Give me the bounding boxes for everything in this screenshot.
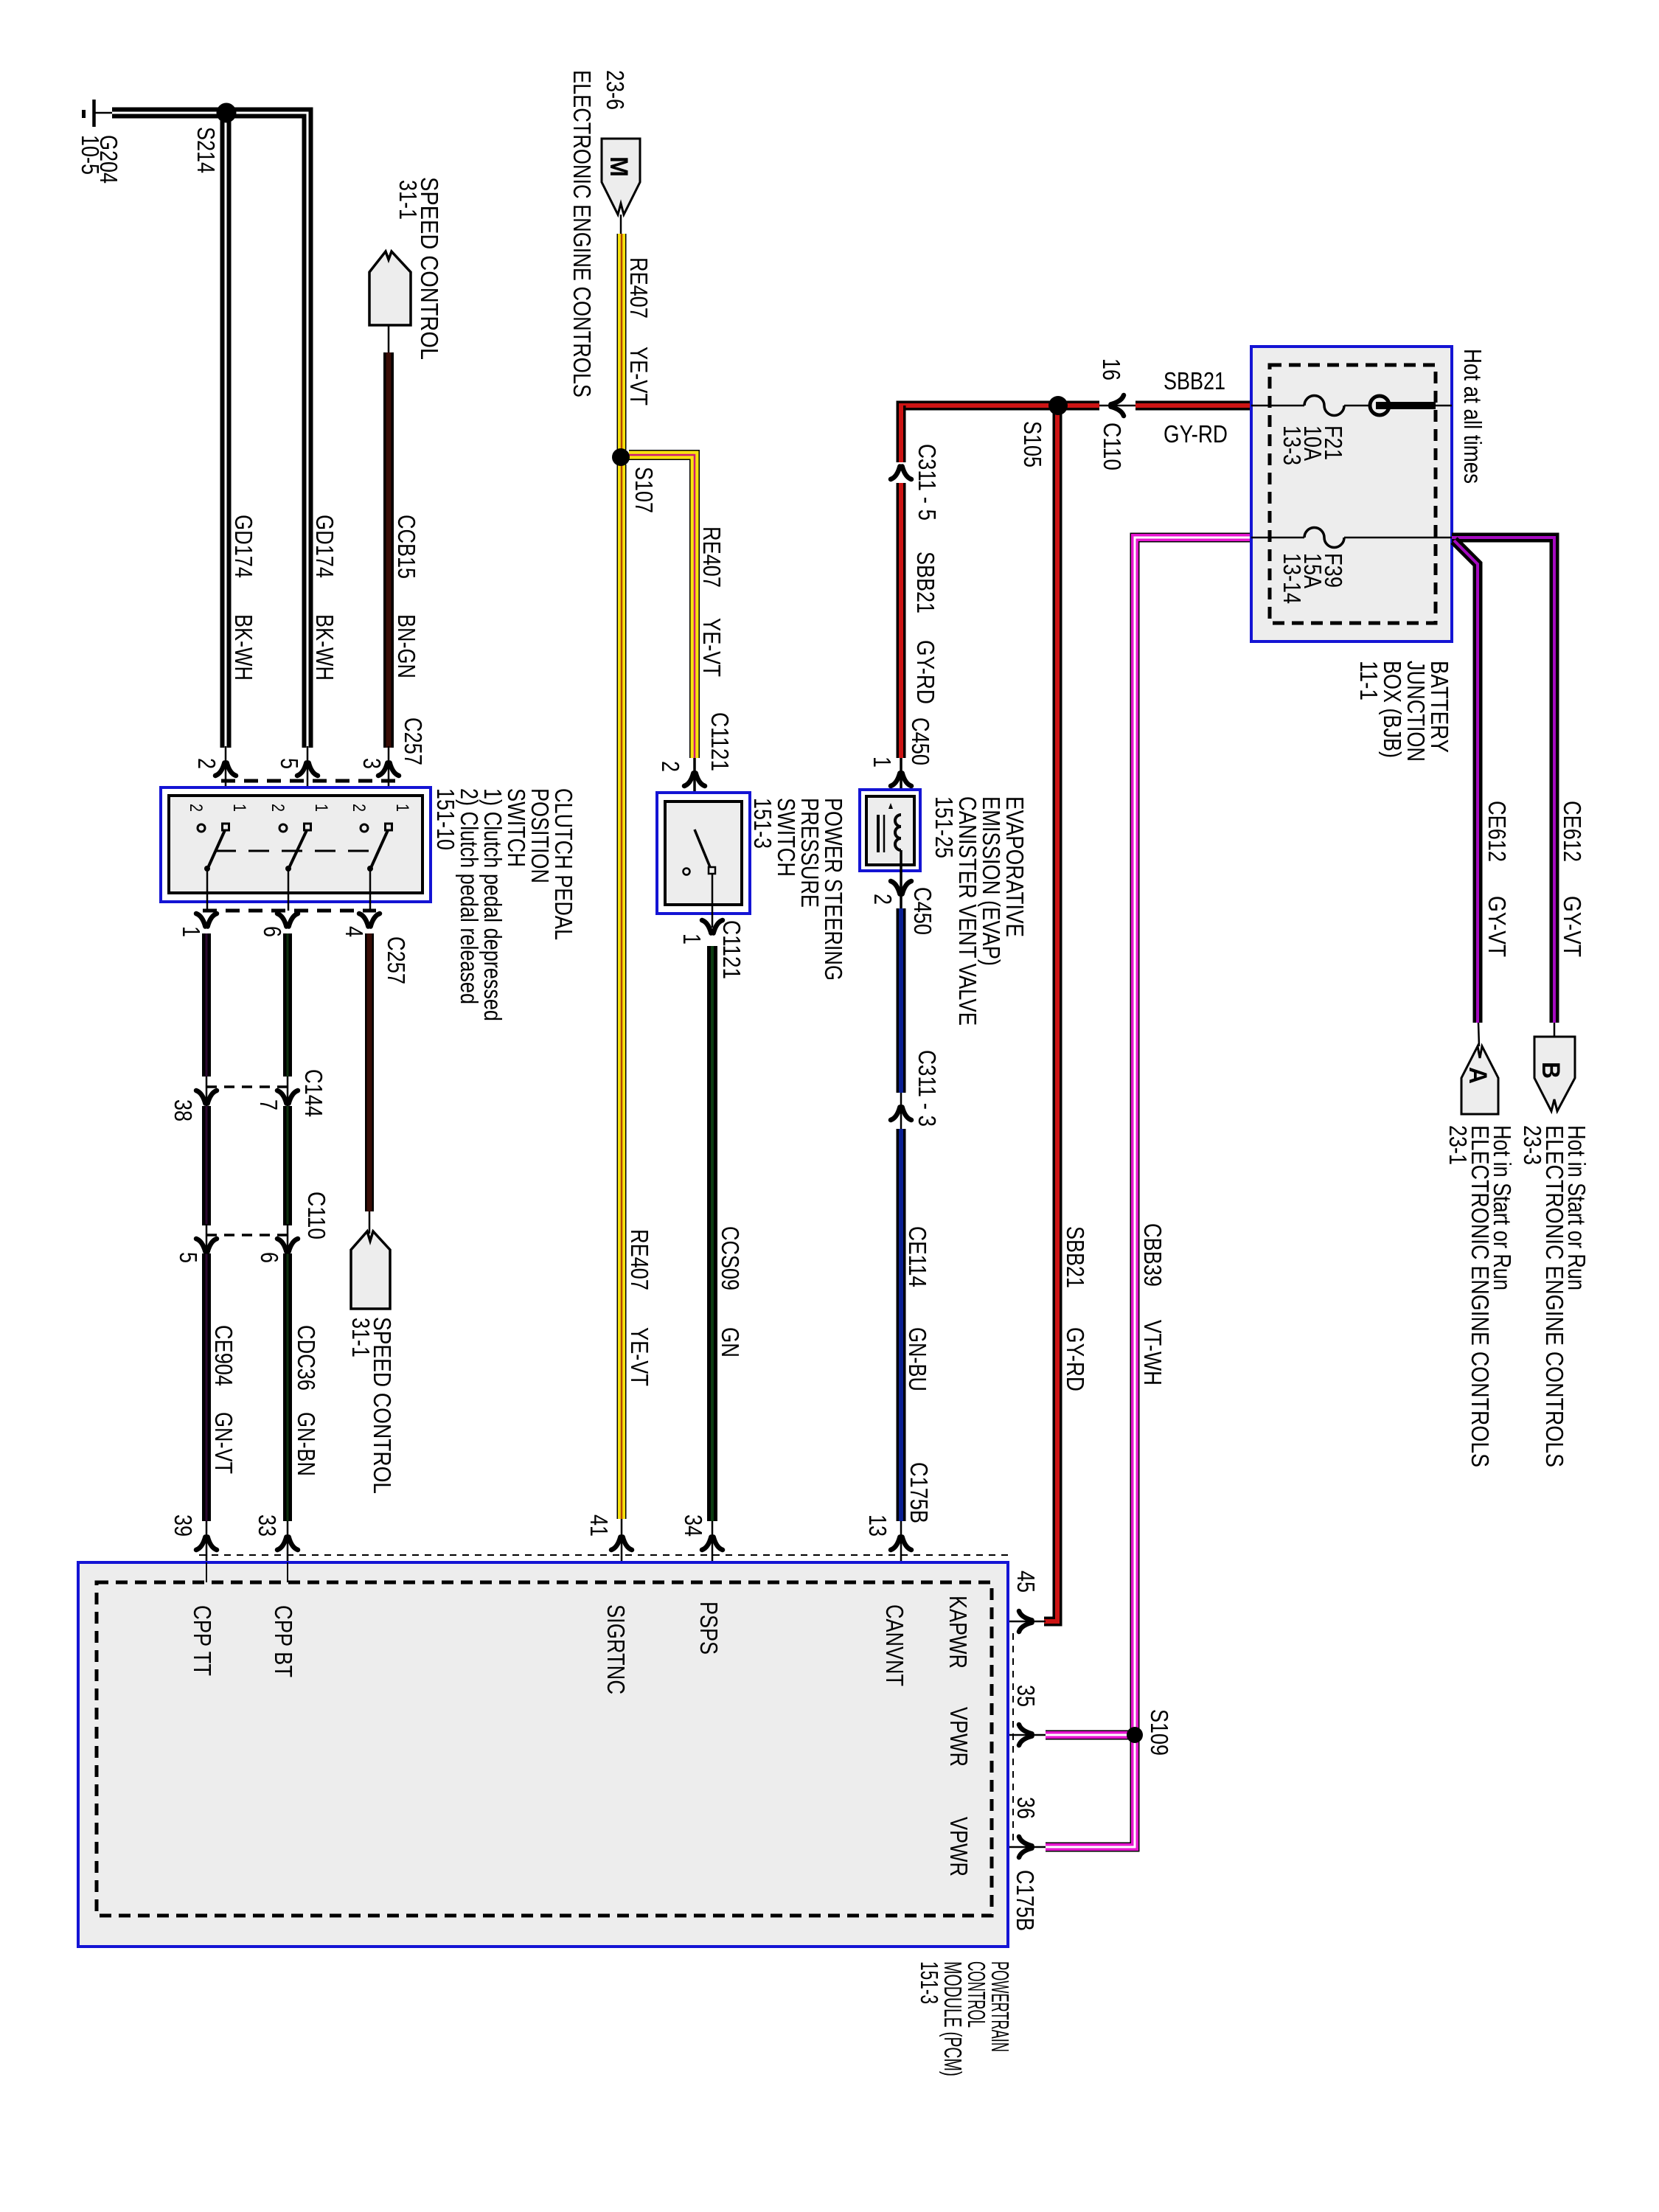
svg-text:C110: C110 [303, 1192, 330, 1239]
svg-text:CPP BT: CPP BT [270, 1605, 297, 1677]
svg-text:GN-BN: GN-BN [293, 1412, 320, 1476]
svg-text:1: 1 [678, 933, 706, 945]
svg-text:1: 1 [178, 926, 205, 937]
svg-text:Hot at all times: Hot at all times [1459, 349, 1486, 484]
PCM pin 39 arrow [196, 1537, 217, 1551]
svg-text:23-1: 23-1 [1444, 1125, 1472, 1165]
svg-text:GD174: GD174 [311, 515, 338, 578]
wire GD174 BK-WH left drop [220, 118, 232, 748]
wire SBB21 GY-RD horizontal at S105 [1058, 401, 1099, 411]
svg-text:C311 - 5: C311 - 5 [914, 444, 941, 521]
svg-text:VPWR: VPWR [945, 1817, 973, 1877]
wire CCS09 into PCM [712, 1521, 714, 1582]
svg-text:GY-RD: GY-RD [1062, 1327, 1089, 1391]
connector C110 arrow w2 [277, 1239, 298, 1252]
wire CBB39 VT-WH S109 to pin 36 [1046, 1735, 1135, 1847]
wire w1 seg a [202, 933, 211, 1077]
svg-text:CCS09: CCS09 [717, 1226, 744, 1290]
svg-text:KAPWR: KAPWR [945, 1596, 972, 1669]
svg-text:11-1: 11-1 [1355, 661, 1382, 700]
svg-text:1: 1 [392, 804, 412, 812]
connector C311-3 arrow [891, 1107, 911, 1121]
svg-text:C175B: C175B [905, 1462, 933, 1523]
wire pin35 link [992, 1734, 1046, 1736]
svg-text:RE407: RE407 [625, 257, 653, 319]
wire w1 into PCM [206, 1521, 208, 1582]
clutch pedal position switch box [161, 787, 431, 902]
wire thin C311-3 [900, 1093, 902, 1130]
svg-text:41: 41 [585, 1514, 613, 1537]
wire RE407 YE-VT upper [617, 234, 627, 450]
svg-text:GN-VT: GN-VT [210, 1412, 237, 1474]
powertrain control module box [78, 1562, 1008, 1947]
wire stem B [1554, 1023, 1556, 1038]
svg-text:C110: C110 [1099, 422, 1126, 470]
svg-text:PSPS: PSPS [695, 1601, 723, 1655]
connector C450 pin 2 arrow [891, 881, 911, 894]
wire pin45 link [992, 1621, 1046, 1623]
connector A [1461, 1046, 1498, 1114]
svg-text:6: 6 [256, 1252, 283, 1263]
svg-text:CBB39: CBB39 [1139, 1223, 1166, 1287]
wire pin39 inside [206, 1562, 207, 1582]
connector C257 bottom dashed line [203, 909, 376, 913]
fuse F21 10A [1251, 396, 1371, 416]
wire stem M [620, 215, 622, 235]
splice S105 [1048, 396, 1068, 415]
connector M electronic engine controls [602, 139, 640, 215]
splice S214 [217, 103, 237, 123]
svg-text:1: 1 [869, 757, 896, 768]
svg-text:5: 5 [276, 758, 303, 769]
svg-text:31-1: 31-1 [347, 1318, 375, 1357]
svg-text:13-14: 13-14 [1279, 553, 1306, 604]
connector C175B dashed boundary [199, 1554, 1008, 1556]
svg-text:151-3: 151-3 [916, 1961, 943, 2004]
connector SPEED CONTROL 31-1 (bottom) [351, 1231, 390, 1309]
switch element 2 inside clutch switch [279, 824, 311, 911]
svg-text:GY-VT: GY-VT [1559, 896, 1586, 957]
wire CCB15 BN-GN upper [383, 352, 394, 748]
wire w2 into switch [307, 746, 309, 824]
wire pin33 inside [287, 1562, 288, 1582]
PCM inner dashed boundary [97, 1582, 992, 1916]
connector C144 arrow w1 [196, 1091, 217, 1104]
wire CE612 GY-VT to A [1454, 540, 1478, 1023]
svg-text:16: 16 [1098, 358, 1125, 380]
PCM pin 33 arrow [277, 1537, 298, 1551]
svg-text:M: M [605, 156, 633, 177]
wire w2 seg a [283, 933, 292, 1077]
connector C1121 pin 1 arrow [702, 920, 723, 933]
connector pin 3 C257 arrow [378, 763, 399, 776]
svg-text:23-6: 23-6 [602, 70, 629, 110]
wire thin across C110 [1099, 405, 1136, 407]
power steering pressure switch box [657, 793, 750, 914]
svg-text:SIGRTNC: SIGRTNC [602, 1604, 630, 1694]
PCM pin 35 arrow [1019, 1725, 1032, 1745]
wire CE904 GN-VT [202, 1253, 211, 1521]
svg-text:3: 3 [358, 758, 386, 769]
svg-text:CPP TT: CPP TT [189, 1605, 216, 1676]
svg-text:BK-WH: BK-WH [230, 614, 257, 681]
svg-text:SBB21: SBB21 [912, 552, 939, 613]
wire GN-BU upper [897, 908, 906, 1093]
wire bus to box edge [1436, 405, 1452, 407]
svg-text:GD174: GD174 [230, 515, 257, 578]
wire w2 thin C144 [287, 1077, 289, 1107]
svg-text:BK-WH: BK-WH [311, 614, 338, 681]
svg-text:23-3: 23-3 [1519, 1125, 1546, 1165]
svg-text:1: 1 [229, 804, 249, 812]
svg-text:C175B: C175B [1012, 1870, 1039, 1931]
connector B [1534, 1037, 1575, 1111]
connector C450 pin 1 arrow [891, 773, 911, 787]
svg-text:C144: C144 [300, 1069, 327, 1117]
svg-text:CDC36: CDC36 [293, 1325, 320, 1391]
connector C311-5 arrow [891, 467, 911, 480]
wire RE407 YE-VT main lower [617, 465, 627, 1519]
wire w3 into speed control [369, 1211, 371, 1234]
connector C1121 pin 2 arrow [684, 773, 705, 787]
connector C110 arrow w1 [196, 1239, 217, 1252]
svg-text:BN-GN: BN-GN [393, 614, 420, 678]
wire w3 into switch [388, 746, 390, 824]
svg-text:33: 33 [254, 1514, 281, 1537]
svg-text:ELECTRONIC ENGINE CONTROLS: ELECTRONIC ENGINE CONTROLS [1541, 1125, 1568, 1467]
svg-text:151-25: 151-25 [931, 796, 958, 858]
svg-text:GN: GN [717, 1327, 744, 1357]
battery feed terminal circle [1370, 396, 1389, 415]
wire SBB21 GY-RD into BJB [1135, 401, 1251, 411]
svg-text:151-3: 151-3 [749, 798, 776, 849]
connector C110 inline arrow [1111, 395, 1124, 416]
wire CBB39 VT-WH from fuse F39 [1135, 538, 1251, 1735]
solenoid coil EVAP [878, 803, 901, 852]
wire SBB21 drop to C311-5 [897, 406, 906, 462]
svg-text:CE612: CE612 [1484, 801, 1511, 862]
svg-text:2: 2 [869, 894, 897, 905]
svg-text:CE114: CE114 [904, 1226, 931, 1287]
svg-text:YE-VT: YE-VT [625, 347, 653, 406]
svg-text:CE904: CE904 [210, 1325, 237, 1386]
connector pin 1 C257 arrow [196, 914, 217, 927]
wire w2 thin C110 [287, 1224, 289, 1255]
svg-text:GY-VT: GY-VT [1484, 896, 1511, 957]
wire w1 thin C110 [206, 1224, 208, 1255]
svg-text:GY-RD: GY-RD [912, 640, 939, 704]
svg-text:13-3: 13-3 [1279, 425, 1306, 465]
wire w1 thin C144 [206, 1077, 208, 1107]
svg-text:VPWR: VPWR [945, 1707, 973, 1767]
connector C175B dashed boundary right side [1012, 1633, 1014, 1847]
wire branch into PSP box [693, 758, 696, 829]
svg-text:S109: S109 [1146, 1709, 1173, 1756]
svg-text:A: A [1464, 1067, 1492, 1084]
svg-text:RE407: RE407 [698, 526, 726, 588]
svg-text:GN-BU: GN-BU [904, 1327, 931, 1391]
PCM pin 41 arrow [611, 1537, 632, 1551]
switch element 3 inside clutch switch [361, 824, 392, 911]
wire CBB39 VT-WH S109 to pin 35 [1046, 1731, 1130, 1740]
wire pin36 link [992, 1846, 1046, 1848]
svg-text:CANVNT: CANVNT [881, 1604, 908, 1686]
wire CE612 GY-VT to B [1452, 538, 1554, 1023]
svg-text:ELECTRONIC ENGINE CONTROLS: ELECTRONIC ENGINE CONTROLS [568, 70, 596, 397]
svg-text:C257: C257 [383, 936, 410, 984]
svg-text:S107: S107 [630, 467, 658, 513]
switch element 1 inside clutch switch [198, 824, 229, 911]
mechanical link dashed [215, 850, 372, 852]
connector pin 5 C257 arrow [297, 763, 318, 776]
svg-text:CCB15: CCB15 [393, 515, 420, 579]
connector C257 top dashed line [221, 779, 396, 783]
svg-text:35: 35 [1012, 1685, 1040, 1707]
connector pin 4 C257 arrow [359, 914, 380, 927]
svg-text:1: 1 [311, 804, 331, 812]
wire stem A [1478, 1023, 1479, 1046]
connector C110 dashed [206, 1234, 288, 1237]
svg-text:34: 34 [680, 1514, 707, 1537]
svg-text:31-1: 31-1 [394, 180, 422, 220]
svg-text:39: 39 [170, 1514, 197, 1537]
BJB inner dashed boundary [1270, 365, 1436, 623]
svg-text:C1121: C1121 [706, 712, 734, 771]
wire w1 seg b [202, 1106, 211, 1225]
svg-text:VT-WH: VT-WH [1139, 1320, 1166, 1385]
svg-text:2: 2 [657, 761, 684, 772]
connector SPEED CONTROL 31-1 (top) [369, 251, 411, 325]
evaporative emission canister vent valve box [860, 790, 920, 871]
svg-text:C450: C450 [909, 887, 936, 935]
svg-text:2: 2 [268, 804, 288, 812]
svg-text:YE-VT: YE-VT [698, 618, 726, 677]
svg-text:2: 2 [186, 804, 206, 812]
wire SBB21 GY-RD to EVAP [897, 483, 906, 758]
connector C144 arrow w2 [277, 1091, 298, 1104]
wire SBB21 GY-RD horizontal+corner [901, 406, 1099, 410]
wire GN-BU into PCM [900, 1521, 902, 1582]
PCM pin 34 arrow [702, 1537, 723, 1551]
PCM pin 13 arrow [891, 1537, 911, 1551]
svg-text:SBB21: SBB21 [1062, 1226, 1089, 1288]
svg-text:36: 36 [1012, 1797, 1040, 1819]
svg-text:4: 4 [341, 926, 368, 937]
wire CCB15 BN-GN lower [365, 933, 374, 1211]
PCM pin 36 arrow [1019, 1837, 1032, 1857]
svg-text:7: 7 [255, 1099, 282, 1110]
wire stem speed control 1 [388, 325, 390, 354]
wire RE407 branch to PSP switch [629, 455, 695, 758]
svg-text:S214: S214 [192, 127, 220, 173]
connector C144 dashed [206, 1085, 288, 1088]
connector pin 6 C257 arrow [277, 914, 298, 927]
wire CCS09 GN [707, 946, 717, 1521]
svg-text:ELECTRONIC ENGINE CONTROLS: ELECTRONIC ENGINE CONTROLS [1467, 1125, 1494, 1467]
battery junction box (BJB) [1251, 347, 1452, 641]
ground G204 [84, 100, 114, 127]
svg-text:SBB21: SBB21 [1164, 367, 1225, 394]
svg-text:13: 13 [864, 1514, 891, 1537]
svg-text:CE612: CE612 [1559, 801, 1586, 862]
svg-text:2: 2 [349, 804, 369, 812]
svg-text:C257: C257 [400, 717, 427, 765]
splice S107 [612, 448, 630, 466]
svg-text:C1121: C1121 [718, 920, 745, 979]
PCM pin 45 arrow [1019, 1611, 1032, 1632]
svg-text:GY-RD: GY-RD [1164, 420, 1228, 448]
wire out of EVAP valve [900, 850, 902, 928]
svg-text:5: 5 [175, 1252, 202, 1263]
wire w1 into switch [225, 746, 227, 824]
svg-text:B: B [1537, 1062, 1565, 1079]
svg-text:38: 38 [170, 1099, 197, 1121]
connector pin 2 C257 arrow [215, 763, 236, 776]
svg-text:RE407: RE407 [626, 1229, 653, 1290]
wire CDC36 GN-BN [283, 1253, 292, 1521]
wire GD174 BK-WH top run [112, 113, 307, 748]
wire CE114 GN-BU [897, 1129, 906, 1521]
svg-text:45: 45 [1012, 1571, 1040, 1593]
svg-text:2: 2 [193, 758, 220, 769]
switch element PSP [684, 829, 716, 928]
svg-text:YE-VT: YE-VT [626, 1327, 653, 1386]
wire into EVAP valve [900, 758, 902, 815]
fuse F39 15A [1251, 528, 1452, 548]
wire SBB21 GY-RD drop to PCM pin 45 [1044, 410, 1057, 1621]
wire yellow into PCM [621, 1519, 623, 1582]
wire w2 into PCM [287, 1521, 289, 1582]
svg-text:6: 6 [259, 926, 286, 937]
splice S109 [1127, 1727, 1143, 1743]
svg-text:S105: S105 [1019, 421, 1046, 467]
svg-text:C450: C450 [907, 717, 934, 765]
svg-text:151-10: 151-10 [432, 788, 459, 850]
svg-text:10-5: 10-5 [77, 135, 104, 175]
battery feed bus bar [1376, 402, 1436, 409]
wire w2 seg b [283, 1106, 292, 1225]
svg-text:C311 - 3: C311 - 3 [914, 1050, 941, 1127]
